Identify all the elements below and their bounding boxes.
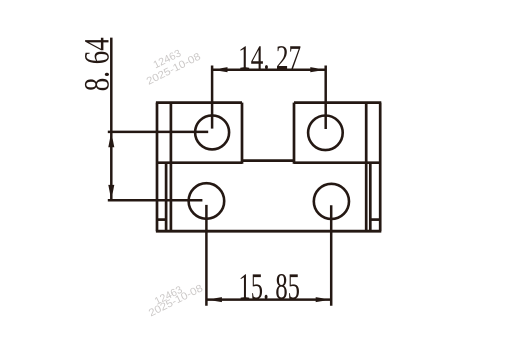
watermark upper "12463" (153, 49, 182, 68)
watermark upper "2025-10-08" (146, 52, 201, 84)
watermark lower "2025-10-08" (148, 284, 203, 316)
right inner vertical (365, 103, 368, 232)
watermark lower "12463" (154, 286, 183, 305)
lower block top edge left segment (157, 161, 242, 164)
dimension 15.85: left arrowhead (207, 297, 222, 302)
left ear right edge (241, 103, 244, 164)
dimension 14.27: right extension line (324, 66, 327, 130)
dimension 15.85: dimension line (206, 298, 331, 301)
left inner vertical (170, 103, 173, 232)
left step horizontal (157, 218, 166, 221)
dimension 14.27: text (240, 46, 300, 69)
dimension 8.64: upper arrowhead (108, 132, 114, 147)
right ear top edge (294, 101, 381, 104)
dimension 8.64: lower arrowhead (108, 185, 114, 200)
dimension 14.27: left arrowhead (212, 67, 227, 72)
dimension 15.85: left extension line / leader from bottom-left hole (205, 205, 208, 306)
hole bottom-left (189, 183, 225, 219)
dimension 14.27: dimension line (212, 68, 326, 71)
dimension 15.85: right extension line / leader from bottom-right hole (330, 205, 333, 305)
dimension 15.85: text (241, 274, 299, 299)
leader to top-left hole (horizontal) (108, 131, 208, 134)
part outline: right outer edge (379, 103, 382, 232)
dimension 14.27: right arrowhead (310, 67, 325, 72)
leader to bottom-left hole (horizontal) (108, 199, 203, 202)
part outline: bottom edge (156, 230, 381, 233)
dimension 14.27: left extension line (211, 66, 214, 129)
dimension 8.64: vertical dimension line (110, 38, 113, 201)
right middle vertical (369, 163, 372, 232)
right ear left edge (293, 103, 296, 164)
left middle vertical (165, 163, 168, 232)
right step horizontal (370, 218, 380, 221)
dimension 15.85: right arrowhead (316, 297, 331, 302)
part outline: left outer edge (156, 103, 159, 232)
dimension 8.64: text (85, 38, 109, 91)
lower block top edge right segment (294, 161, 380, 164)
web line between ears (242, 159, 294, 162)
left ear top edge (156, 101, 242, 104)
hole top-left (195, 115, 229, 149)
hole bottom-right (314, 184, 349, 219)
hole top-right (308, 116, 343, 151)
